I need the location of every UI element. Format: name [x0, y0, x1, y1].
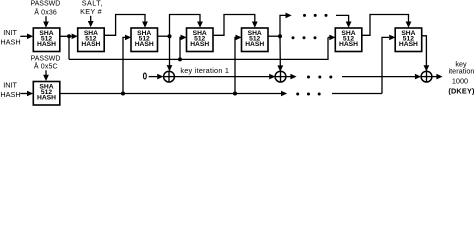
wire U5 out to node [268, 35, 280, 37]
svg-text:Å 0x5C: Å 0x5C [34, 62, 58, 71]
wire arrow into U2 top [88, 16, 94, 27]
wire 0 into XOR1 [149, 74, 164, 80]
wire node169 down into XOR1 top [167, 36, 173, 71]
wire U1 to U2 with node [60, 34, 78, 40]
label PASSWD xor 0x5C [31, 56, 61, 71]
wire line A up into U4 left [180, 35, 187, 60]
wire U3 out to node [158, 35, 170, 37]
wire U4 out up-over into U5 top [214, 15, 258, 36]
wire lower bus end up into U7 left [382, 35, 395, 94]
wire arrow INIT HASH into U1 [20, 34, 33, 40]
svg-text:(DKEY): (DKEY) [448, 86, 474, 95]
label PASSWD xor 0x36 [30, 1, 60, 17]
svg-text:INIT: INIT [3, 81, 17, 90]
svg-text:PASSWD: PASSWD [31, 56, 61, 63]
node on lower bus at U3 feed [121, 92, 125, 96]
wire lower bus resume to U7 feed [332, 93, 382, 95]
wire line A (ipad state bus) [69, 37, 328, 59]
wire accumulator resume to XOR3 [342, 74, 421, 80]
wire node69 down to line A [68, 36, 70, 59]
wire XOR1 to XOR2 [174, 74, 275, 80]
svg-text:Å 0x36: Å 0x36 [34, 8, 57, 17]
wire node280 up-over toward dots (arrow) [280, 13, 292, 37]
wire lower bus up into U5 left [235, 35, 242, 94]
wire loop resume down into U6 top [336, 15, 352, 27]
label SALT, KEY # [80, 0, 103, 16]
label INIT HASH upper [0, 28, 20, 46]
svg-text:1000: 1000 [452, 76, 468, 85]
node on line A feeding U4 [178, 57, 182, 61]
node after U5 [278, 34, 282, 38]
node on lower bus at U5 feed [233, 92, 237, 96]
wire arrow INIT HASH into U8 [20, 91, 33, 97]
wire lower bus (opad state) [60, 91, 287, 97]
svg-text:INIT: INIT [3, 28, 17, 37]
sha-512 block U5 [242, 28, 269, 52]
svg-text:key iteration 1: key iteration 1 [180, 66, 229, 75]
xor XOR1 [164, 71, 175, 82]
wire U2 out up-over into U3 top [104, 15, 148, 36]
svg-text:0: 0 [143, 71, 148, 82]
label INIT HASH lower [0, 81, 20, 99]
wire U7 out down into XOR3 top [422, 36, 430, 72]
wire arrow into U8 top [43, 70, 49, 81]
svg-text:PASSWD: PASSWD [30, 1, 60, 8]
svg-text:iteration: iteration [449, 67, 474, 76]
wire XOR2 out arrow [286, 74, 297, 80]
sha-512 block U7 [395, 28, 422, 52]
ellipsis dots lower row [296, 93, 321, 96]
svg-text:KEY #: KEY # [80, 7, 102, 16]
wire XOR3 out arrow [432, 74, 443, 80]
ellipsis dots accumulator row [307, 76, 332, 79]
wire node169 up-over into U4 top [170, 15, 203, 37]
wire node280 down into XOR2 top [277, 36, 283, 71]
wire arrow into U1 top [43, 16, 49, 28]
ellipsis dots chain row [292, 36, 317, 39]
node after U3 [168, 34, 172, 38]
sha-512 block U6 [335, 28, 362, 52]
ellipsis dots loop row [303, 14, 328, 17]
svg-text:HASH: HASH [0, 90, 20, 99]
svg-text:HASH: HASH [0, 38, 20, 47]
sha-512 block U2 [78, 28, 105, 52]
xor XOR2 [275, 71, 286, 82]
sha-512 block U4 [187, 28, 214, 52]
sha-512 block U8 (opad init) [33, 82, 60, 106]
xor XOR3 [421, 71, 432, 82]
wire lower bus up into U3 left [123, 35, 131, 94]
wire U6 out up-over into U7 top [362, 15, 412, 36]
sha-512 block U1 [33, 28, 60, 52]
node after U1 [67, 34, 71, 38]
sha-512 block U3 [131, 28, 158, 52]
wire line A end up into U6 left [328, 35, 336, 41]
label key iteration 1000 (DKEY) [448, 59, 474, 95]
